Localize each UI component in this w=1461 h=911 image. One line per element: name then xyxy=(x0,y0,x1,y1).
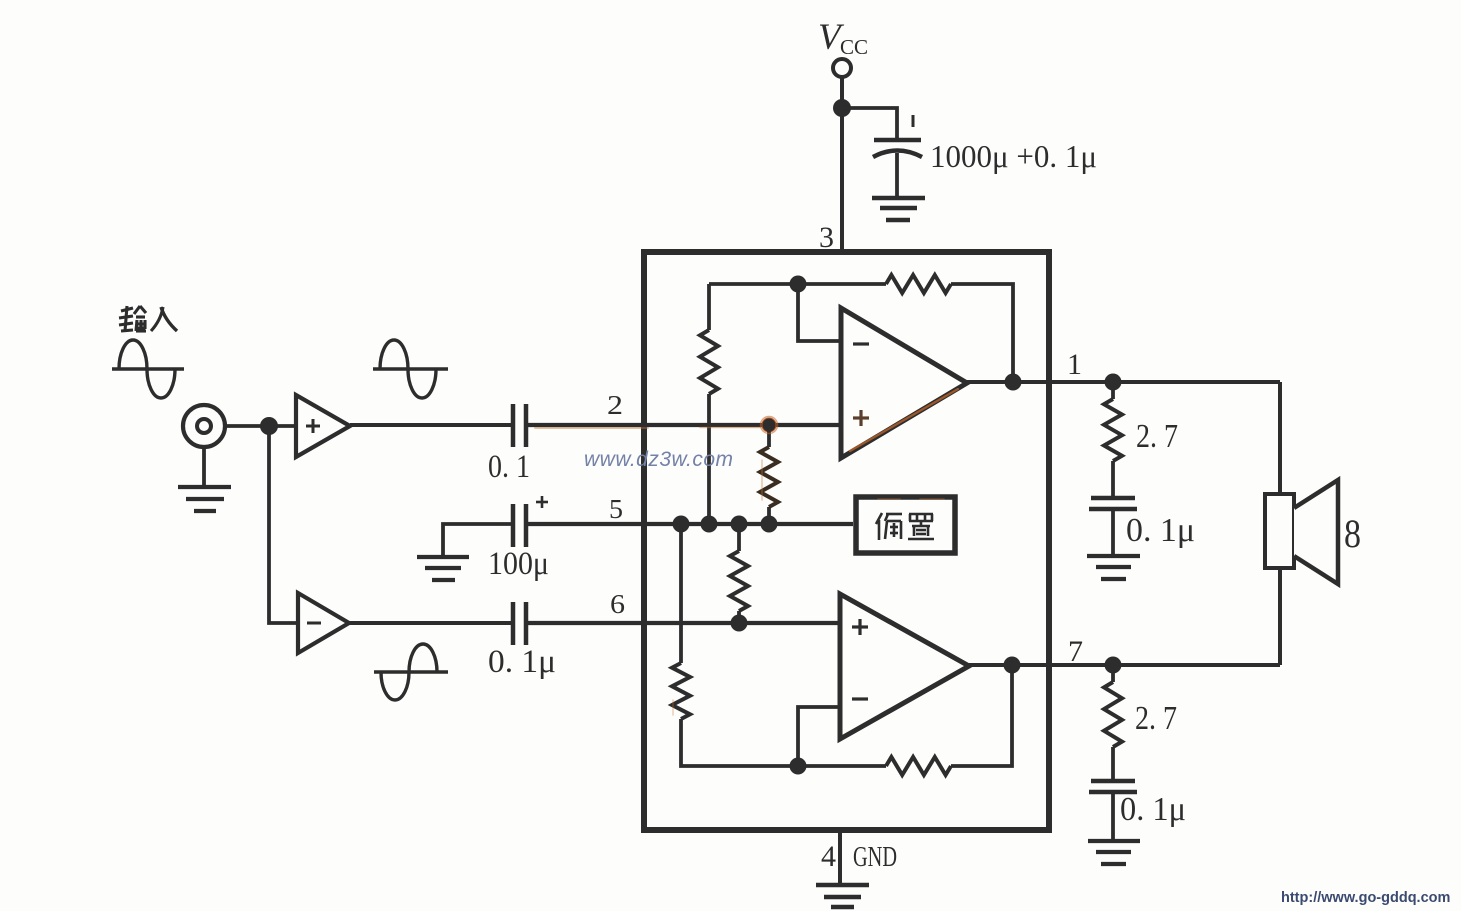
ground pin 4 xyxy=(816,885,869,907)
op-amp IC box U1 xyxy=(644,252,1049,830)
capacitor C7 0.1u xyxy=(1089,781,1137,792)
node pin7 junction xyxy=(1105,657,1122,674)
capacitor C4 0.1u xyxy=(513,602,526,645)
node bus dots xyxy=(673,516,690,533)
svg-text:0. 1μ: 0. 1μ xyxy=(1120,791,1186,828)
input connector J1 xyxy=(183,405,225,447)
svg-text:1: 1 xyxy=(1067,348,1082,381)
node pin6 junction xyxy=(731,615,748,632)
text 输入 (input) xyxy=(119,306,177,331)
wire feedback to output xyxy=(951,284,1013,382)
svg-text:1000μ +0. 1μ: 1000μ +0. 1μ xyxy=(930,138,1097,174)
svg-text:4: 4 xyxy=(821,840,836,873)
buffer amp A2 (-) xyxy=(298,593,349,653)
polarity plus mark xyxy=(536,496,548,508)
wire to inverting amp xyxy=(269,426,298,623)
wire top feedback xyxy=(709,282,886,286)
resistor R1 feedback top xyxy=(886,275,951,293)
wire Vcc to pin 3 xyxy=(840,77,844,252)
svg-text:www.dz3w.com: www.dz3w.com xyxy=(584,448,734,471)
ground C6 xyxy=(1087,556,1140,579)
wire C3 left lead xyxy=(443,524,513,556)
wire speaker bottom xyxy=(1278,568,1282,665)
svg-text:0. 1μ: 0. 1μ xyxy=(1126,512,1195,549)
wire scan artifacts xyxy=(535,389,958,715)
wire U1B output xyxy=(969,663,1052,667)
resistor R2 x709 xyxy=(707,284,711,330)
wire pin 1 line xyxy=(1052,380,1280,384)
wire connector to amps xyxy=(225,424,296,428)
sine wave after A1 xyxy=(373,340,448,398)
svg-text:6: 6 xyxy=(610,589,625,619)
svg-text:GND: GND xyxy=(853,841,897,873)
svg-text:2. 7: 2. 7 xyxy=(1135,700,1177,737)
wire inverting input xyxy=(798,284,841,341)
node feedback junction A xyxy=(790,276,807,293)
speaker LS1 xyxy=(1265,494,1294,568)
resistor R4 x739 xyxy=(737,524,741,551)
wire pin 6 line xyxy=(349,621,513,625)
svg-text:0. 1μ: 0. 1μ xyxy=(488,644,556,680)
svg-text:http://www.go-gddq.com: http://www.go-gddq.com xyxy=(1281,890,1450,906)
capacitor C2 0.1 xyxy=(513,404,526,447)
wire pin 4 xyxy=(838,830,842,884)
node Vcc label xyxy=(818,17,868,59)
svg-text:100μ: 100μ xyxy=(488,546,549,582)
svg-text:2. 7: 2. 7 xyxy=(1136,418,1178,455)
resistor R8 2.7 xyxy=(1111,665,1115,682)
node pin1 junction xyxy=(1105,374,1122,391)
node junction Vcc xyxy=(833,99,851,117)
capacitor C6 0.1u xyxy=(1089,498,1137,509)
op-amp U1B xyxy=(840,594,969,739)
buffer amp A1 (+) xyxy=(296,395,350,457)
wire lower feedback xyxy=(951,665,1012,766)
Vcc terminal xyxy=(833,59,851,77)
wire to speaker top xyxy=(1278,382,1282,494)
ground connector xyxy=(178,487,231,511)
resistor R3 x769 xyxy=(767,425,771,447)
svg-text:0. 1: 0. 1 xyxy=(488,449,530,485)
resistor R5 feedback bottom xyxy=(886,757,951,775)
capacitor C1 1000u+0.1u xyxy=(873,115,922,157)
wire feedback bottom left xyxy=(681,719,886,766)
ground C7 xyxy=(1088,841,1140,864)
wire pin 5 bus xyxy=(526,522,853,526)
wire connector ground xyxy=(202,447,206,486)
resistor R6 x681 xyxy=(672,663,690,719)
wire pin 2 line xyxy=(526,423,841,427)
text 偏置 (bias) xyxy=(876,513,934,540)
wire C1 to ground xyxy=(895,153,899,197)
node feedback junction B xyxy=(790,758,807,775)
capacitor C3 100u xyxy=(513,504,526,547)
wire U1A output xyxy=(967,380,1052,384)
sine wave after A2 inverted xyxy=(374,644,448,700)
node input junction xyxy=(260,417,278,435)
wire to C1 xyxy=(842,108,897,138)
svg-text:CC: CC xyxy=(840,35,868,59)
svg-text:5: 5 xyxy=(609,494,623,524)
node pin2 junction xyxy=(762,418,777,433)
wire pin 7 line xyxy=(1052,663,1280,667)
node output junction xyxy=(1005,374,1022,391)
wire C6 to ground xyxy=(1111,509,1115,555)
wire inverting input B xyxy=(798,707,840,766)
input sine wave xyxy=(112,340,184,398)
node output junction B xyxy=(1004,657,1021,674)
ground for C3 xyxy=(417,557,469,580)
svg-text:8: 8 xyxy=(1344,511,1361,556)
resistor R7 2.7 xyxy=(1111,382,1115,399)
svg-text:2: 2 xyxy=(607,390,623,420)
ground for C1 xyxy=(872,198,925,220)
bias box 偏置 xyxy=(856,497,955,553)
op-amp U1A xyxy=(841,308,967,458)
wire C7 to ground xyxy=(1111,792,1115,840)
